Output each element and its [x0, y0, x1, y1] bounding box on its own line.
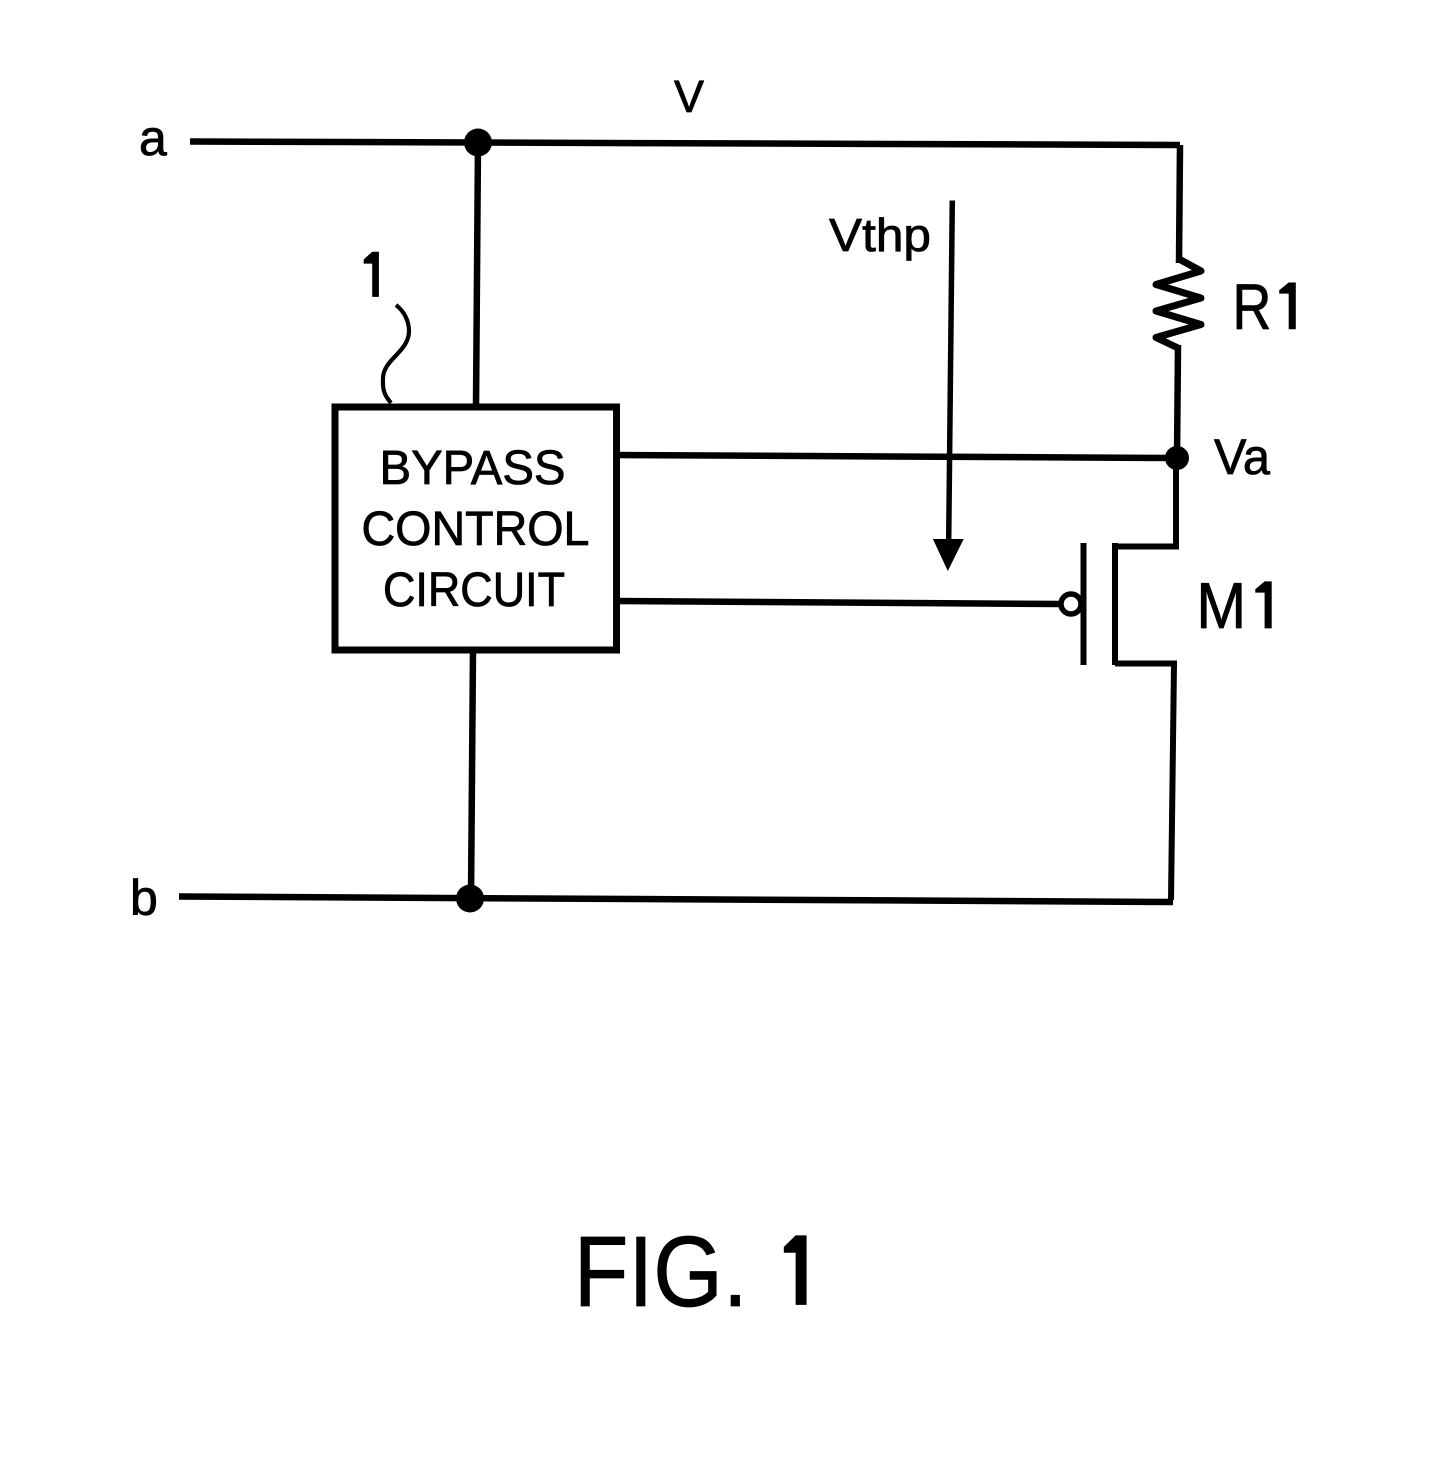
wire box to gate bubble — [616, 601, 1061, 604]
svg-text:M: M — [1196, 571, 1246, 643]
transistor M1 channel bar — [1112, 543, 1118, 665]
wire top rail down to resistor — [1179, 145, 1180, 263]
leader squiggle — [383, 305, 409, 403]
wire box bottom to junction b — [471, 650, 473, 898]
node a junction — [464, 129, 492, 157]
wire box to node Va — [616, 455, 1177, 458]
svg-text:FIG.: FIG. — [574, 1216, 748, 1328]
resistor R1 — [1156, 259, 1201, 348]
svg-text:BYPASS: BYPASS — [380, 442, 566, 495]
label 1 — [364, 252, 379, 297]
node Va junction — [1165, 446, 1189, 470]
wire b horizontal rail — [179, 897, 1173, 903]
transistor M1 gate bubble — [1061, 594, 1081, 614]
arrow Vthp head — [933, 539, 964, 571]
svg-text:R: R — [1233, 270, 1272, 343]
wire junction a to box top — [476, 143, 478, 408]
bypass control circuit box U1 — [335, 407, 617, 650]
svg-text:b: b — [130, 870, 158, 926]
svg-text:Va: Va — [1214, 429, 1270, 485]
transistor M1 gate bar — [1081, 543, 1087, 665]
svg-text:Vthp: Vthp — [829, 209, 931, 261]
svg-text:CONTROL: CONTROL — [362, 503, 590, 556]
transistor M1 source wire to Va — [1115, 458, 1176, 547]
transistor M1 drain wire to rail b — [1115, 664, 1174, 901]
arrow Vthp shaft — [949, 201, 953, 541]
svg-text:CIRCUIT: CIRCUIT — [383, 564, 565, 617]
wire a horizontal rail — [190, 142, 1180, 146]
svg-text:a: a — [139, 110, 167, 166]
svg-text:V: V — [674, 71, 704, 122]
node b junction — [456, 885, 484, 913]
wire resistor to node Va — [1177, 345, 1178, 458]
